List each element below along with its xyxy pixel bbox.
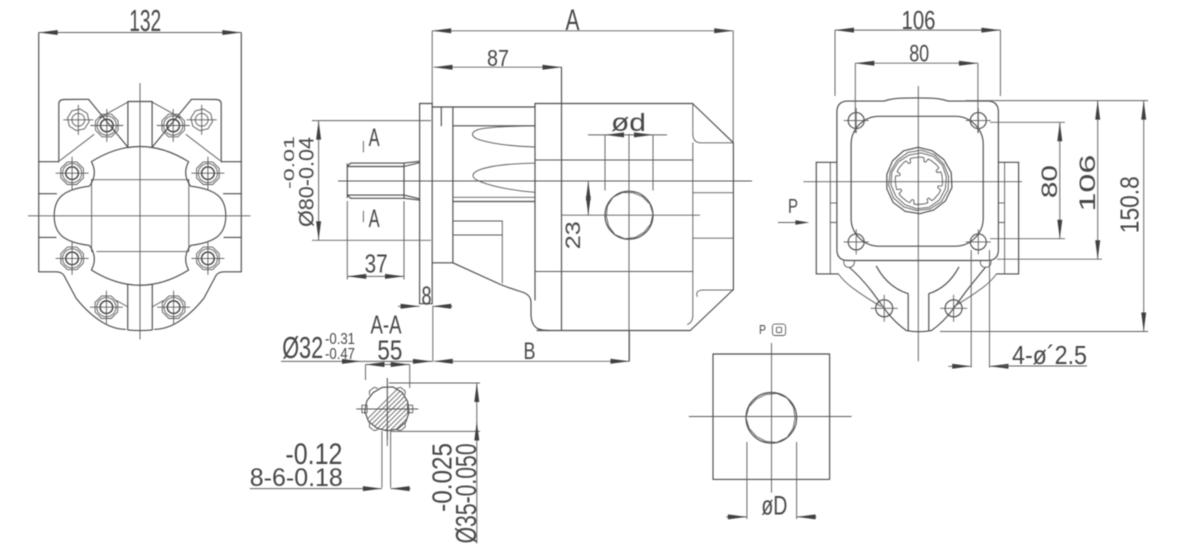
- rear view: bottom mounting lobe: [838, 266, 996, 331]
- rear view: 2 lobe bolt holes: [871, 295, 898, 322]
- svg-text:8-6-0.18: 8-6-0.18: [250, 464, 343, 492]
- dimension O80 -0.01/-0.04 (flange spigot): [281, 121, 431, 241]
- svg-text:37: 37: [365, 251, 388, 279]
- dimension 150.8 vertical (far right): [940, 101, 1148, 332]
- bolt hole at 208,258: [197, 247, 220, 270]
- rear view: 4 flange bolt holes: [844, 108, 869, 133]
- svg-text:132: 132: [129, 3, 161, 38]
- dimension 8 (flange thickness): [398, 281, 453, 311]
- corner hole at 78,120: [68, 109, 90, 131]
- svg-text:Ø35-0.050: Ø35-0.050: [451, 443, 483, 543]
- bolt hole at 106,307: [95, 296, 118, 319]
- svg-text:150.8: 150.8: [1114, 176, 1144, 233]
- svg-text:-0.47: -0.47: [325, 346, 355, 363]
- bolt hole at 978,242: [970, 234, 986, 250]
- section A-A cut marks on shaft: [363, 124, 379, 233]
- side view: main body block: [535, 67, 733, 330]
- front view: quatrefoil boss outline: [54, 147, 226, 286]
- side view: drive shaft: [347, 161, 419, 200]
- dimension 80 vertical (right side): [990, 122, 1065, 238]
- section A-A: shaft cross-section with key, hatched: [347, 378, 500, 446]
- bolt hole at 72,258: [61, 247, 84, 270]
- bolt hole at 173,126: [162, 114, 185, 137]
- front view: 2 plain corner holes: [63, 105, 93, 135]
- svg-text:A: A: [369, 124, 380, 152]
- svg-text:P: P: [788, 196, 798, 218]
- bolt hole at 978,121: [970, 113, 986, 129]
- dimension A (side view overall length): [432, 4, 733, 143]
- port face detail: square flange: [713, 354, 830, 479]
- dimension 23 (centerline to port): [562, 181, 591, 249]
- svg-text:87: 87: [487, 45, 509, 71]
- dimension 132 (front view overall width): [39, 3, 242, 38]
- front view: ear-to-tab saddle edges: [89, 99, 128, 147]
- dimension 106 (rear top): [835, 5, 1000, 96]
- dimension B (flange face to port center): [433, 307, 630, 365]
- bolt hole at 208,173: [197, 162, 220, 185]
- svg-text:P: P: [759, 322, 766, 337]
- side view: bell housing with visible gear splines: [432, 107, 549, 331]
- svg-text:B: B: [524, 338, 536, 365]
- side view: mounting flange plate (8 thick): [420, 104, 433, 304]
- svg-text:Ø80-0.04: Ø80-0.04: [295, 137, 318, 227]
- bolt hole at 174,307: [162, 296, 185, 319]
- port face detail: centerlines: [689, 416, 852, 418]
- P port label and arrow: [778, 196, 809, 225]
- svg-text:106: 106: [1075, 155, 1100, 212]
- dimension 106 vertical (right side): [966, 101, 1149, 260]
- front view: gear chamber square: [91, 180, 93, 252]
- front view: 8 flange bolt holes: [90, 109, 123, 142]
- bolt hole at 72,173: [61, 162, 84, 185]
- dimension 4-O12.5 (bolt holes): [948, 250, 1087, 370]
- bolt hole at 107,126: [96, 114, 119, 137]
- front view: top center tab: [128, 102, 152, 148]
- svg-text:8: 8: [422, 281, 432, 311]
- leader O32 -0.31/-0.47: [281, 330, 433, 365]
- rear view: inner rounded square housing face: [851, 116, 983, 246]
- side view: outlet port circle: [562, 134, 700, 361]
- key width lines and dimension 8-6 -0.12/-0.18: [250, 431, 411, 492]
- dimension 37 (shaft length): [347, 201, 404, 280]
- port face detail: port bore circle: [746, 393, 797, 444]
- rear view: square flange with rounded corners: [837, 98, 999, 267]
- dimension 55: [366, 335, 410, 388]
- rear view: centerlines: [917, 86, 919, 361]
- bolt hole at 856,121: [848, 113, 864, 129]
- front view: pump body rear housing: [39, 33, 242, 329]
- svg-text:Ø32: Ø32: [282, 330, 323, 365]
- svg-text:23: 23: [562, 221, 585, 249]
- port face detail: P view label: [759, 322, 786, 337]
- svg-text:106: 106: [902, 5, 936, 35]
- rear view: left side port boss: [816, 162, 838, 274]
- svg-text:80: 80: [909, 41, 929, 68]
- rear view: splined input bore: [887, 147, 952, 213]
- dimension 80 (rear top, bolt spacing): [855, 41, 978, 133]
- corner hole at 202,120: [191, 109, 213, 131]
- dimension OD (port size): [726, 442, 816, 521]
- dimension O35 -0.025/-0.050: [389, 383, 483, 543]
- svg-text:80: 80: [1037, 165, 1062, 198]
- dimension 87: [434, 45, 562, 71]
- side view: main centerline: [338, 180, 752, 182]
- dimension Od (port diameter): [588, 109, 667, 191]
- svg-text:A: A: [369, 205, 380, 233]
- svg-text:ød: ød: [611, 109, 646, 137]
- front view: centerlines: [28, 215, 251, 217]
- front view: boss ridge edges: [100, 102, 128, 117]
- lobe hole at 954,308: [945, 300, 962, 317]
- front view: bottom center tab: [128, 285, 153, 331]
- rear view: right side port boss: [997, 162, 1019, 274]
- svg-text:A: A: [566, 4, 580, 37]
- bolt hole at 856,242: [848, 234, 864, 250]
- svg-text:4-ø´2.5: 4-ø´2.5: [1012, 340, 1087, 370]
- svg-text:øD: øD: [761, 491, 787, 521]
- lobe hole at 884,308: [876, 300, 893, 317]
- svg-text:55: 55: [377, 335, 402, 366]
